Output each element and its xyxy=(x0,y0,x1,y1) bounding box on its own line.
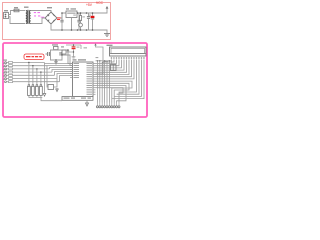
regulator U1 7805 xyxy=(66,8,77,30)
input terminal row 7 xyxy=(3,76,73,83)
wire ground rail xyxy=(51,24,107,33)
bus wires MCU right to bottom connector xyxy=(96,81,133,102)
label text bus xyxy=(96,57,99,58)
wire xyxy=(9,17,26,24)
junction dots reset xyxy=(73,44,74,52)
junction dots bottom xyxy=(28,49,69,73)
ground arrow xyxy=(86,100,89,106)
bus wires LCD right to bottom connector xyxy=(112,60,144,103)
red annotation label xyxy=(24,54,44,60)
crystal X1 xyxy=(52,44,58,50)
bottom controller section frame xyxy=(3,43,147,117)
bus wires LCD to MCU xyxy=(96,60,135,79)
wire ground run xyxy=(41,98,62,101)
wire xyxy=(111,60,113,65)
fuse F1 xyxy=(14,7,19,12)
resistor pack RN1 xyxy=(28,84,43,97)
wire branch to resistor pack xyxy=(29,63,41,85)
wire xyxy=(9,11,15,15)
capacitor C2 xyxy=(77,13,80,30)
junction dots xyxy=(61,12,93,31)
capacitor C1 xyxy=(60,13,63,30)
value label dashes xyxy=(73,15,91,18)
preset RV1 xyxy=(104,61,116,71)
label text xyxy=(84,47,88,48)
wire xyxy=(62,50,73,64)
MCU U2 xyxy=(73,59,94,96)
input terminal row 4 xyxy=(3,69,73,73)
input terminal row 1 xyxy=(3,60,73,64)
LCD pin labels xyxy=(111,57,145,59)
wire xyxy=(96,60,115,75)
bridge rectifier D1-D4 xyxy=(45,7,57,24)
LCD module LCD1 xyxy=(107,45,147,56)
ground xyxy=(104,34,110,37)
value label red C1 xyxy=(57,17,61,20)
wire xyxy=(62,55,73,66)
transistor Q1 xyxy=(43,64,58,97)
power arrow VCC xyxy=(106,6,109,9)
wire xyxy=(57,13,66,18)
wire VCC rail xyxy=(77,8,107,13)
svg-text:+5V: +5V xyxy=(86,3,93,7)
input terminal row 5 xyxy=(3,72,73,77)
resistor R2 xyxy=(61,46,75,58)
top power supply section frame xyxy=(3,3,111,40)
wire xyxy=(19,10,25,12)
svg-text:VCC: VCC xyxy=(96,1,104,5)
value label TRAN-2P2S xyxy=(34,12,45,18)
wire xyxy=(31,11,51,13)
wire oscillator loop xyxy=(51,50,63,60)
capacitor C5 xyxy=(46,52,51,56)
ground xyxy=(54,60,58,64)
capacitor C6 xyxy=(60,52,63,56)
reset capacitor red xyxy=(72,46,80,52)
input terminal row 2 xyxy=(3,63,73,67)
connector J2 xyxy=(96,103,120,108)
label strip below MCU xyxy=(62,97,93,101)
connector J1 xyxy=(4,10,9,19)
power arrow VCC2 xyxy=(94,43,103,62)
MCU right pins xyxy=(93,64,96,95)
capacitor C3 xyxy=(87,13,90,30)
input terminal row 6 xyxy=(3,74,73,80)
junction dots bus xyxy=(97,60,110,62)
input terminal row 3 xyxy=(3,66,73,70)
MCU pin name text xyxy=(74,63,93,95)
transformer TR1 xyxy=(24,7,31,25)
wire VCC distribution xyxy=(66,45,81,49)
wire xyxy=(31,18,45,24)
capacitor C4 red xyxy=(91,13,95,30)
resistor R1 and lamp D5 xyxy=(79,13,83,30)
MCU left pins xyxy=(70,64,73,78)
vertical bus to connector xyxy=(96,61,112,103)
